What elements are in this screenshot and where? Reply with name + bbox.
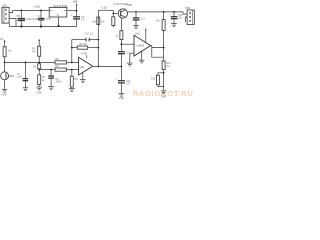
svg-text:+12В: +12В: [34, 5, 41, 9]
svg-text:GND: GND: [1, 94, 7, 97]
svg-text:ВМ1: ВМ1: [10, 75, 16, 78]
svg-text:LM386: LM386: [137, 45, 145, 48]
svg-text:C10: C10: [84, 32, 89, 35]
svg-text:DA3 КРЕН5: DA3 КРЕН5: [53, 4, 68, 8]
svg-text:УД1: УД1: [80, 66, 85, 69]
svg-text:100: 100: [178, 17, 183, 20]
svg-text:R7 1М: R7 1М: [80, 43, 87, 46]
svg-text:+4,5В: +4,5В: [126, 4, 133, 7]
svg-text:+1,2В: +1,2В: [101, 6, 108, 9]
svg-text:1,0м: 1,0м: [17, 76, 22, 79]
svg-text:GND: GND: [161, 95, 167, 98]
svg-text:XS2: XS2: [185, 6, 191, 10]
svg-text:XP1: XP1: [2, 3, 7, 7]
svg-text:С13: С13: [140, 17, 145, 20]
svg-text:GND: GND: [37, 91, 43, 94]
svg-text:GND: GND: [119, 97, 125, 100]
svg-text:100,0: 100,0: [56, 81, 63, 84]
svg-text:R12: R12: [151, 78, 156, 81]
svg-text:DA2: DA2: [135, 32, 140, 35]
svg-text:+9В: +9В: [73, 0, 78, 4]
svg-text:100н: 100н: [46, 18, 52, 21]
svg-text:+4,5В: +4,5В: [81, 52, 88, 55]
svg-text:1000,0х16В: 1000,0х16В: [26, 18, 39, 21]
